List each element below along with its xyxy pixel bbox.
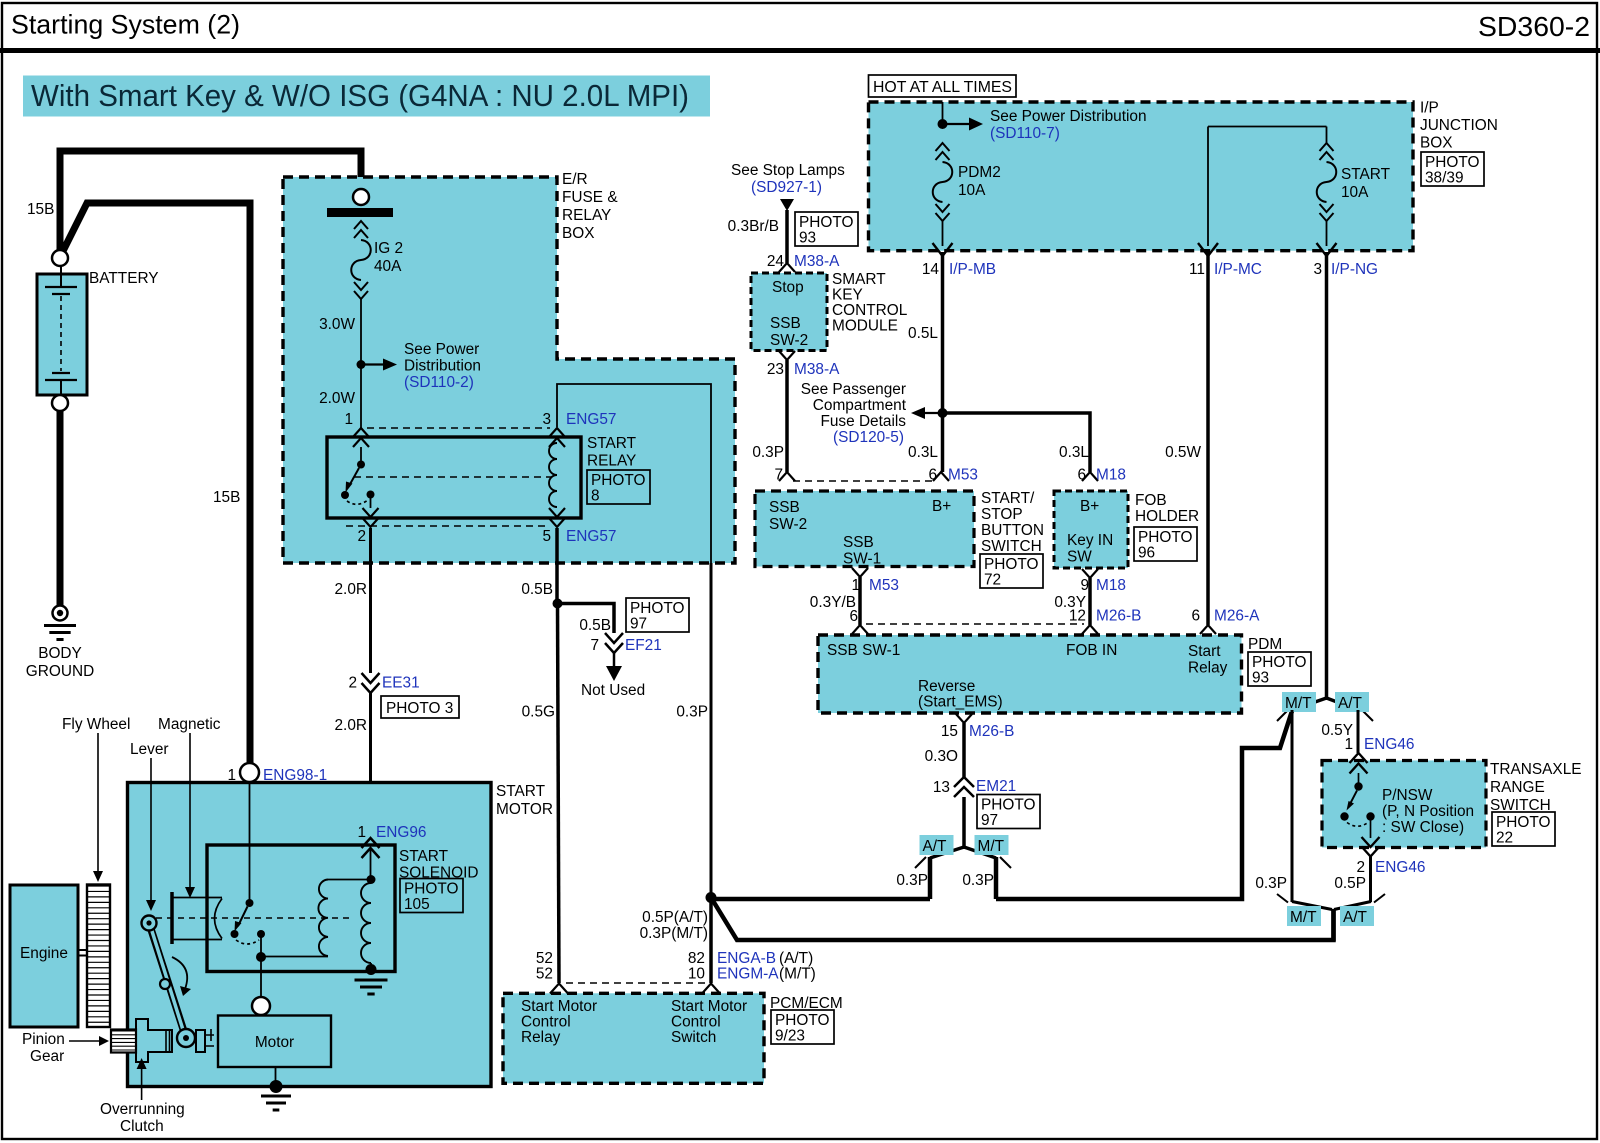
label 1 ENG98-1 — [227, 767, 327, 784]
label M/T tag (I/P-NG) — [1282, 692, 1316, 712]
label Start Relay (pdm) — [1188, 643, 1228, 677]
svg-text:1: 1 — [357, 824, 366, 841]
hot at all times box — [869, 75, 1017, 97]
solenoid switch — [231, 899, 266, 953]
solenoid pull-in coil — [318, 880, 328, 957]
label 6 M26-A — [1191, 608, 1260, 625]
svg-text:PHOTO: PHOTO — [981, 797, 1035, 814]
svg-text:GROUND: GROUND — [26, 663, 94, 680]
svg-text:0.3L: 0.3L — [1059, 444, 1089, 461]
svg-text:PDM2: PDM2 — [958, 164, 1001, 181]
svg-text:BUTTON: BUTTON — [981, 522, 1044, 539]
svg-text:2.0W: 2.0W — [319, 390, 355, 407]
svg-text:1: 1 — [227, 767, 236, 784]
wire 0.5L — [941, 252, 945, 413]
label pin 3 — [542, 411, 551, 428]
label 1 M53 — [851, 577, 899, 594]
wire 0.5G to PCM — [558, 604, 560, 984]
solenoid coil ground — [355, 963, 388, 994]
photo 97 box (EM21) — [977, 795, 1040, 830]
label 2 EE31 — [348, 675, 419, 692]
svg-text:KEY: KEY — [832, 287, 863, 304]
label SSB SW-2 (switch) — [769, 499, 807, 533]
svg-text:0.5P(A/T): 0.5P(A/T) — [642, 909, 708, 926]
battery — [37, 266, 87, 395]
label 14 I/P-MB — [922, 261, 996, 278]
wire junction to pcm pin 82 — [709, 897, 713, 983]
label 7 EF21 — [590, 637, 661, 654]
label Lever — [130, 741, 169, 758]
label 3 I/P-NG — [1313, 261, 1378, 278]
label 10 ENGM-A (M/T) — [688, 966, 816, 983]
motor terminal node — [252, 997, 270, 1015]
svg-text:CONTROL: CONTROL — [832, 302, 908, 319]
svg-text:ENG46: ENG46 — [1364, 736, 1414, 753]
label pin 5 — [542, 528, 551, 545]
label PDM2 10A — [958, 164, 1001, 199]
wire switch to motor — [260, 960, 262, 997]
smart key control module box — [751, 273, 827, 351]
label 15 M26-B — [941, 723, 1014, 740]
i/p junction box — [869, 102, 1414, 251]
svg-text:M38-A: M38-A — [794, 361, 840, 378]
wire I/P-NG down — [1325, 252, 1329, 700]
label 0.3P (smart key) — [752, 444, 784, 461]
label 2.0W — [319, 390, 355, 407]
fuse IG 2 40A — [327, 189, 393, 361]
svg-text:START: START — [399, 848, 449, 865]
svg-text:(SD927-1): (SD927-1) — [751, 179, 822, 196]
label 0.3Y — [1054, 594, 1086, 611]
svg-text:Switch: Switch — [671, 1029, 716, 1046]
svg-text:93: 93 — [1252, 670, 1269, 687]
label Stop — [772, 279, 804, 296]
svg-text:PHOTO: PHOTO — [799, 214, 853, 231]
svg-text:SW-2: SW-2 — [770, 332, 808, 349]
pnsw pin 1 connector — [1350, 753, 1368, 774]
svg-text:PHOTO 3: PHOTO 3 — [386, 700, 453, 717]
photo 8 box — [587, 470, 650, 505]
svg-text:B+: B+ — [932, 498, 951, 515]
svg-text:SSB: SSB — [770, 315, 801, 332]
svg-text:M26-B: M26-B — [969, 723, 1014, 740]
wire A/T 0.5Y — [1357, 710, 1360, 753]
svg-text:START: START — [496, 783, 546, 800]
diagram subtitle banner — [23, 76, 710, 117]
label 0.3Br/B — [728, 218, 779, 235]
label 0.5G — [522, 704, 555, 721]
label 0.3L (SSB) — [908, 444, 938, 461]
a/t m/t split of I/P-NG — [1277, 698, 1373, 721]
label 2 ENG46 — [1356, 859, 1425, 876]
relay pin 1 connector — [353, 428, 369, 447]
wire relay pin3 loop — [557, 384, 711, 563]
not used arrow — [606, 653, 622, 681]
svg-text:BOX: BOX — [1420, 135, 1453, 152]
svg-text:Fuse Details: Fuse Details — [820, 413, 906, 430]
svg-text:PHOTO: PHOTO — [1496, 814, 1550, 831]
svg-text:ENG57: ENG57 — [566, 528, 616, 545]
svg-text:A/T: A/T — [1343, 909, 1368, 926]
svg-text:97: 97 — [981, 812, 998, 829]
svg-text:0.5B: 0.5B — [579, 617, 611, 634]
svg-text:82: 82 — [688, 950, 705, 967]
svg-text:STOP: STOP — [981, 506, 1023, 523]
start motor box — [128, 783, 492, 1087]
label Fly Wheel — [62, 716, 130, 733]
svg-text:EM21: EM21 — [976, 778, 1016, 795]
label Start Motor Control Relay — [521, 998, 597, 1046]
svg-text:MODULE: MODULE — [832, 318, 898, 335]
svg-text:Engine: Engine — [20, 945, 68, 962]
connector ENG96 — [362, 838, 380, 858]
svg-text:PHOTO: PHOTO — [591, 472, 645, 489]
m/t a/t merge marks — [1277, 894, 1385, 903]
wire 2.0R EE31 to ENG96 — [369, 693, 372, 838]
label SSB SW-2 (module) — [770, 315, 808, 349]
svg-text:ENG98-1: ENG98-1 — [263, 767, 327, 784]
svg-text:6: 6 — [849, 608, 858, 625]
pdm pin 15 connector — [956, 714, 972, 723]
photo 97 box (EF21) — [626, 598, 689, 633]
svg-text:Gear: Gear — [30, 1048, 64, 1065]
svg-text:P/NSW: P/NSW — [1382, 787, 1433, 804]
svg-text:PHOTO: PHOTO — [1252, 654, 1306, 671]
svg-text:93: 93 — [799, 230, 816, 247]
svg-text:(Start_EMS): (Start_EMS) — [918, 694, 1003, 711]
label 13 EM21 — [933, 778, 1016, 796]
battery terminal node (-) — [52, 395, 68, 411]
label Not Used — [581, 682, 645, 699]
svg-text:2.0R: 2.0R — [334, 717, 367, 734]
svg-text:With Smart Key & W/O ISG (G4NA: With Smart Key & W/O ISG (G4NA : NU 2.0L… — [31, 79, 689, 113]
wire 2.0R relay pin2 to EE31 — [369, 528, 372, 673]
svg-text:(M/T): (M/T) — [779, 966, 816, 983]
start solenoid box — [207, 845, 395, 972]
svg-text:5: 5 — [542, 528, 551, 545]
svg-text:FOB: FOB — [1135, 492, 1167, 509]
relay pin 3 connector — [549, 428, 565, 447]
label 9 M18 — [1080, 577, 1126, 594]
label 1 ENG46 — [1344, 736, 1414, 753]
ssb pin 7 connector — [779, 472, 795, 481]
start/stop button switch box — [755, 491, 974, 567]
svg-text:PHOTO: PHOTO — [404, 881, 458, 898]
relay pin 2 connector — [363, 508, 379, 527]
key in sw box — [1054, 491, 1128, 568]
svg-text:Pinion: Pinion — [22, 1031, 65, 1048]
label PDM — [1248, 636, 1282, 653]
label ENG57 (pin 5) — [566, 528, 616, 545]
label Key IN SW — [1067, 532, 1113, 566]
svg-text:M26-A: M26-A — [1214, 608, 1260, 625]
label 24 M38-A — [767, 253, 840, 270]
key in pin 9 connector — [1082, 569, 1098, 578]
svg-text:Starting System (2): Starting System (2) — [11, 10, 240, 40]
svg-text:6: 6 — [1191, 608, 1200, 625]
svg-text:PHOTO: PHOTO — [1425, 154, 1479, 171]
label 0.5P(A/T) 0.3P(M/T) — [640, 909, 708, 942]
photo 3 box — [381, 696, 459, 718]
label I/P JUNCTION BOX — [1420, 100, 1498, 152]
svg-text:0.3P(M/T): 0.3P(M/T) — [640, 925, 708, 942]
fuse PDM2 10A — [933, 143, 953, 246]
pnsw switch — [1340, 773, 1374, 838]
label SSB SW-1 (pdm) — [827, 642, 900, 659]
motor ground wire — [275, 1067, 277, 1082]
svg-text:START/: START/ — [981, 490, 1035, 507]
svg-text:See Passenger: See Passenger — [801, 381, 906, 398]
label FOB IN — [1066, 642, 1117, 659]
svg-text:START: START — [587, 435, 637, 452]
photo 105 box — [400, 879, 463, 914]
svg-text:15: 15 — [941, 723, 958, 740]
wire ENG98-1 to solenoid switch — [249, 782, 251, 900]
svg-text:11: 11 — [1189, 261, 1205, 278]
svg-text:SSB: SSB — [769, 499, 800, 516]
photo 93 box (stop lamp) — [795, 212, 858, 247]
label IG 2 40A — [374, 240, 403, 275]
wire 0.3Br/B — [785, 210, 789, 263]
label 52 52 — [536, 950, 553, 983]
svg-text:ENG46: ENG46 — [1375, 859, 1425, 876]
dashed link 52-82 — [566, 982, 705, 984]
wire fuse to relay pin 1 — [360, 365, 362, 430]
svg-text:7: 7 — [590, 637, 599, 654]
dashed actuator axis — [156, 917, 350, 919]
dashed link pin7-pin6 — [793, 480, 935, 482]
svg-text:0.3P: 0.3P — [896, 872, 928, 889]
wire M/T branch of EM21 — [994, 857, 999, 899]
merge output wire — [1331, 909, 1336, 941]
document number SD360-2 — [1478, 11, 1590, 42]
label 0.3P (relay loop) — [676, 704, 708, 721]
connector EE31 — [362, 673, 380, 693]
svg-text:Clutch: Clutch — [120, 1118, 164, 1135]
junction node 0.3P — [706, 892, 717, 903]
svg-text:START: START — [1341, 166, 1391, 183]
svg-text:ENGA-B: ENGA-B — [717, 950, 776, 967]
svg-text:15B: 15B — [213, 489, 240, 506]
label Magnetic — [158, 716, 221, 733]
solenoid hold-in coil — [361, 883, 371, 963]
label 0.3O — [925, 748, 958, 765]
label 2.0R (upper) — [334, 581, 367, 598]
wire battery to body ground — [57, 411, 64, 605]
svg-text:10: 10 — [688, 966, 705, 983]
svg-text:0.3P: 0.3P — [752, 444, 784, 461]
label See Power Distribution (SD110-7) — [990, 108, 1147, 142]
svg-text:PDM: PDM — [1248, 636, 1282, 653]
label 0.3P (M/T branch) — [962, 872, 994, 889]
photo 22 box — [1492, 812, 1555, 847]
svg-text:M26-B: M26-B — [1096, 608, 1141, 625]
ssb b+ pin 6 connector — [933, 472, 949, 481]
wire M/T branch to corner — [996, 711, 1292, 899]
label Engine — [20, 945, 68, 962]
label Start Motor Control Switch — [671, 998, 747, 1046]
i/p-mc exit connector — [1198, 243, 1218, 256]
label 0.5Y — [1321, 722, 1353, 739]
label SMART KEY CONTROL MODULE — [832, 271, 908, 335]
svg-text:Distribution: Distribution — [404, 358, 481, 375]
connector EM21 — [954, 777, 974, 797]
label 0.3L (key in) — [1059, 444, 1089, 461]
svg-text:ENG96: ENG96 — [376, 824, 426, 841]
svg-text:Stop: Stop — [772, 279, 804, 296]
label 0.3P (parallel) — [1255, 875, 1287, 892]
svg-text:BODY: BODY — [38, 645, 82, 662]
svg-text:96: 96 — [1138, 545, 1155, 562]
label A/T tag (EM21) — [920, 835, 954, 855]
solenoid switch output node — [256, 952, 328, 962]
svg-text:(P, N Position: (P, N Position — [1382, 803, 1474, 820]
pinion pointer arrow — [69, 1036, 109, 1046]
svg-text:Compartment: Compartment — [813, 397, 907, 414]
key in b+ pin 6 connector — [1082, 472, 1098, 481]
svg-text:Start Motor: Start Motor — [521, 998, 597, 1015]
svg-text:1: 1 — [1344, 736, 1353, 753]
battery terminal node (+) — [52, 250, 68, 266]
lever pointer arrow — [146, 758, 156, 911]
svg-text:9/23: 9/23 — [775, 1028, 805, 1045]
svg-text:(SD120-5): (SD120-5) — [833, 429, 904, 446]
wire 0.5P — [1334, 857, 1371, 910]
svg-text:See Power Distribution: See Power Distribution — [990, 108, 1147, 125]
svg-text:Start: Start — [1188, 643, 1221, 660]
label pin 7 (SSB SW-2) — [774, 467, 783, 484]
label 0.3P (A/T branch) — [896, 872, 928, 889]
svg-text:M53: M53 — [869, 577, 899, 594]
smart key module pin 23 connector — [779, 351, 795, 360]
label M/T tag (EM21) — [975, 835, 1009, 855]
label 0.5W — [1165, 444, 1201, 461]
photo 72 box — [980, 554, 1043, 589]
stop lamps feed arrow — [780, 199, 794, 211]
svg-text:Relay: Relay — [1188, 660, 1228, 677]
header separator rule — [0, 48, 1600, 53]
svg-text:0.5P: 0.5P — [1334, 875, 1366, 892]
label B+ (key in) — [1080, 498, 1099, 515]
label pin 6 (reverse) — [849, 608, 858, 625]
svg-text:MOTOR: MOTOR — [496, 801, 553, 818]
reverse pin 6 connector — [852, 625, 868, 634]
smart key module pin 24 connector — [779, 263, 795, 272]
label START MOTOR — [496, 783, 553, 818]
label P/NSW (P, N Position : SW Close) — [1382, 787, 1474, 836]
svg-text:M18: M18 — [1096, 467, 1126, 484]
label 3.0W — [319, 316, 355, 333]
label See Stop Lamps (SD927-1) — [731, 162, 845, 196]
pcm ecm box — [503, 993, 764, 1083]
wire branch to key in sw — [943, 413, 1091, 472]
ip jb internal rail — [1208, 127, 1327, 247]
label A/T tag (merge) — [1340, 906, 1374, 926]
pcm pin 52 connector — [550, 984, 568, 994]
i/p-ng exit connector — [1317, 243, 1337, 256]
svg-text:23: 23 — [767, 361, 784, 378]
svg-text:97: 97 — [630, 616, 647, 633]
label pin 1 — [344, 411, 353, 428]
label 6 M18 (B+) — [1077, 467, 1126, 484]
svg-text:Lever: Lever — [130, 741, 169, 758]
svg-text:Overrunning: Overrunning — [100, 1101, 185, 1118]
wire junction diagonal to merge rail — [711, 898, 1334, 941]
label START 10A — [1341, 166, 1391, 201]
svg-text:B+: B+ — [1080, 498, 1099, 515]
label START RELAY — [587, 435, 637, 470]
ssb pin 1 connector — [852, 568, 868, 577]
svg-text:Relay: Relay — [521, 1029, 561, 1046]
svg-text:RELAY: RELAY — [587, 453, 636, 470]
dashed link pin6-pin12 — [866, 623, 1084, 625]
svg-text:0.5W: 0.5W — [1165, 444, 1201, 461]
svg-text:A/T: A/T — [1338, 695, 1363, 712]
svg-text:BOX: BOX — [562, 225, 595, 242]
svg-text:0.3O: 0.3O — [925, 748, 958, 765]
svg-text:ENGM-A: ENGM-A — [717, 966, 779, 983]
svg-text:Key IN: Key IN — [1067, 532, 1113, 549]
wire 0.3Y — [1088, 578, 1092, 625]
magnetic pointer arrow — [185, 733, 195, 898]
svg-text:Motor: Motor — [255, 1034, 294, 1051]
engine flywheel coupling — [78, 950, 87, 956]
overrunning clutch pointer arrow — [137, 1058, 147, 1100]
label 2.0R (lower) — [334, 717, 367, 734]
label A/T tag (I/P-NG) — [1335, 692, 1369, 712]
svg-text:E/R: E/R — [562, 171, 588, 188]
relay internal dashed line — [354, 476, 552, 478]
fuse START 10A — [1317, 143, 1337, 246]
label 11 I/P-MC — [1189, 261, 1262, 278]
wire 0.5W — [1206, 252, 1210, 625]
i/p-mb exit connector — [933, 243, 953, 256]
svg-text:M/T: M/T — [978, 838, 1005, 855]
svg-text:Control: Control — [671, 1014, 721, 1031]
body ground symbol — [44, 606, 76, 640]
lever arm — [142, 916, 196, 1048]
svg-text:6: 6 — [1077, 467, 1086, 484]
svg-text:PHOTO: PHOTO — [984, 556, 1038, 573]
svg-text:M/T: M/T — [1290, 909, 1317, 926]
svg-text:9: 9 — [1080, 577, 1089, 594]
svg-text:SW-1: SW-1 — [843, 551, 881, 568]
label TRANSAXLE RANGE SWITCH — [1490, 761, 1582, 814]
solenoid coil top link — [328, 879, 371, 881]
motor — [218, 1016, 331, 1068]
svg-text:40A: 40A — [374, 258, 402, 275]
svg-text:TRANSAXLE: TRANSAXLE — [1490, 761, 1582, 778]
svg-text:22: 22 — [1496, 830, 1513, 847]
label 0.3Y/B — [810, 594, 856, 611]
wire EM21 to split — [962, 797, 966, 849]
label Pinion Gear — [22, 1031, 65, 1065]
svg-text:(SD110-7): (SD110-7) — [990, 125, 1060, 142]
magnetic plunger plate — [172, 892, 222, 944]
pinion gear — [111, 1030, 136, 1053]
svg-text:IG 2: IG 2 — [374, 240, 403, 257]
label PCM/ECM — [770, 995, 843, 1012]
svg-text:14: 14 — [922, 261, 940, 278]
label E/R FUSE & RELAY BOX — [562, 171, 618, 242]
connector ENG98-1 node — [240, 763, 259, 782]
motor ground symbol — [261, 1096, 291, 1110]
label 12 M26-B — [1069, 608, 1141, 625]
pdm box — [818, 635, 1242, 713]
wire M/T 0.3P parallel — [1292, 710, 1332, 910]
svg-text:A/T: A/T — [923, 838, 948, 855]
svg-text:M18: M18 — [1096, 577, 1126, 594]
